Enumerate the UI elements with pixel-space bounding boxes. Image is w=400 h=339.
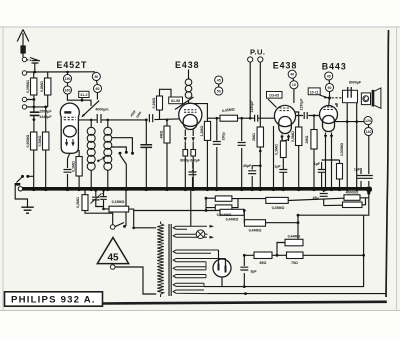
svg-text:0,008MΩ: 0,008MΩ bbox=[340, 142, 344, 156]
svg-text:E452T: E452T bbox=[57, 60, 88, 70]
svg-text:E438: E438 bbox=[273, 61, 298, 71]
svg-text:3µF: 3µF bbox=[250, 270, 257, 274]
svg-text:1150µF: 1150µF bbox=[250, 100, 254, 113]
svg-text:2MΩ: 2MΩ bbox=[252, 133, 256, 141]
svg-text:90: 90 bbox=[328, 86, 332, 90]
svg-text:0,44MΩ: 0,44MΩ bbox=[288, 235, 301, 239]
svg-text:2MΩ: 2MΩ bbox=[305, 135, 309, 143]
svg-text:0,44MΩ: 0,44MΩ bbox=[249, 229, 262, 233]
svg-text:40: 40 bbox=[290, 73, 294, 77]
svg-text:85Ω: 85Ω bbox=[260, 261, 267, 265]
svg-text:0,05MΩ: 0,05MΩ bbox=[26, 80, 30, 93]
svg-text:D3-65: D3-65 bbox=[269, 94, 279, 98]
svg-text:4MΩ: 4MΩ bbox=[160, 130, 164, 138]
svg-text:150: 150 bbox=[65, 77, 71, 81]
svg-text:10: 10 bbox=[292, 83, 296, 87]
svg-text:B443: B443 bbox=[322, 62, 347, 72]
svg-text:45µ: 45µ bbox=[312, 196, 318, 200]
svg-text:1µF: 1µF bbox=[274, 165, 281, 169]
svg-text:1500µF: 1500µF bbox=[39, 109, 52, 113]
svg-text:0,8MΩ: 0,8MΩ bbox=[40, 81, 44, 92]
svg-text:40000Ω: 40000Ω bbox=[346, 190, 359, 194]
svg-text:0,96MΩ: 0,96MΩ bbox=[26, 134, 30, 147]
svg-text:8000µ 640µF: 8000µ 640µF bbox=[180, 159, 200, 163]
svg-text:0,15MΩ: 0,15MΩ bbox=[112, 200, 125, 204]
svg-text:8000µF: 8000µF bbox=[349, 81, 362, 85]
svg-text:0,2MΩ: 0,2MΩ bbox=[76, 197, 80, 208]
svg-text:0,044MΩ: 0,044MΩ bbox=[217, 213, 232, 217]
svg-text:45: 45 bbox=[327, 74, 331, 78]
svg-text:1,2MΩ: 1,2MΩ bbox=[200, 125, 204, 136]
svg-text:0,5MΩ: 0,5MΩ bbox=[38, 135, 42, 146]
svg-text:1µF: 1µF bbox=[354, 168, 361, 172]
svg-text:50: 50 bbox=[217, 89, 221, 93]
svg-text:41-2: 41-2 bbox=[80, 93, 87, 97]
svg-text:81-98: 81-98 bbox=[171, 99, 180, 103]
svg-text:45: 45 bbox=[107, 253, 119, 264]
svg-text:1µF: 1µF bbox=[314, 162, 321, 166]
svg-text:E438: E438 bbox=[175, 60, 200, 70]
svg-text:PHILIPS 932 A.: PHILIPS 932 A. bbox=[11, 295, 96, 306]
svg-text:45: 45 bbox=[217, 78, 221, 82]
svg-text:50: 50 bbox=[94, 75, 98, 79]
svg-text:0,44MΩ: 0,44MΩ bbox=[226, 218, 239, 222]
svg-text:120: 120 bbox=[365, 119, 371, 123]
svg-text:45µF: 45µF bbox=[243, 164, 252, 168]
svg-text:10-11: 10-11 bbox=[310, 90, 319, 94]
svg-text:140: 140 bbox=[366, 130, 372, 134]
svg-text:4000µm: 4000µm bbox=[95, 108, 108, 112]
svg-text:0,2MΩ: 0,2MΩ bbox=[152, 97, 156, 108]
svg-text:180µ: 180µ bbox=[222, 132, 226, 140]
svg-text:0,1MΩ: 0,1MΩ bbox=[275, 144, 279, 155]
svg-text:60: 60 bbox=[96, 87, 100, 91]
svg-text:P.U.: P.U. bbox=[250, 48, 265, 57]
svg-text:1150µF: 1150µF bbox=[300, 98, 304, 111]
svg-text:75Ω: 75Ω bbox=[291, 261, 298, 265]
svg-text:0,25MΩ: 0,25MΩ bbox=[272, 206, 285, 210]
svg-text:0,1MΩ: 0,1MΩ bbox=[72, 161, 76, 172]
svg-text:160: 160 bbox=[65, 88, 71, 92]
svg-text:1440µF: 1440µF bbox=[39, 115, 52, 119]
svg-text:0,5MΩ: 0,5MΩ bbox=[291, 131, 295, 142]
